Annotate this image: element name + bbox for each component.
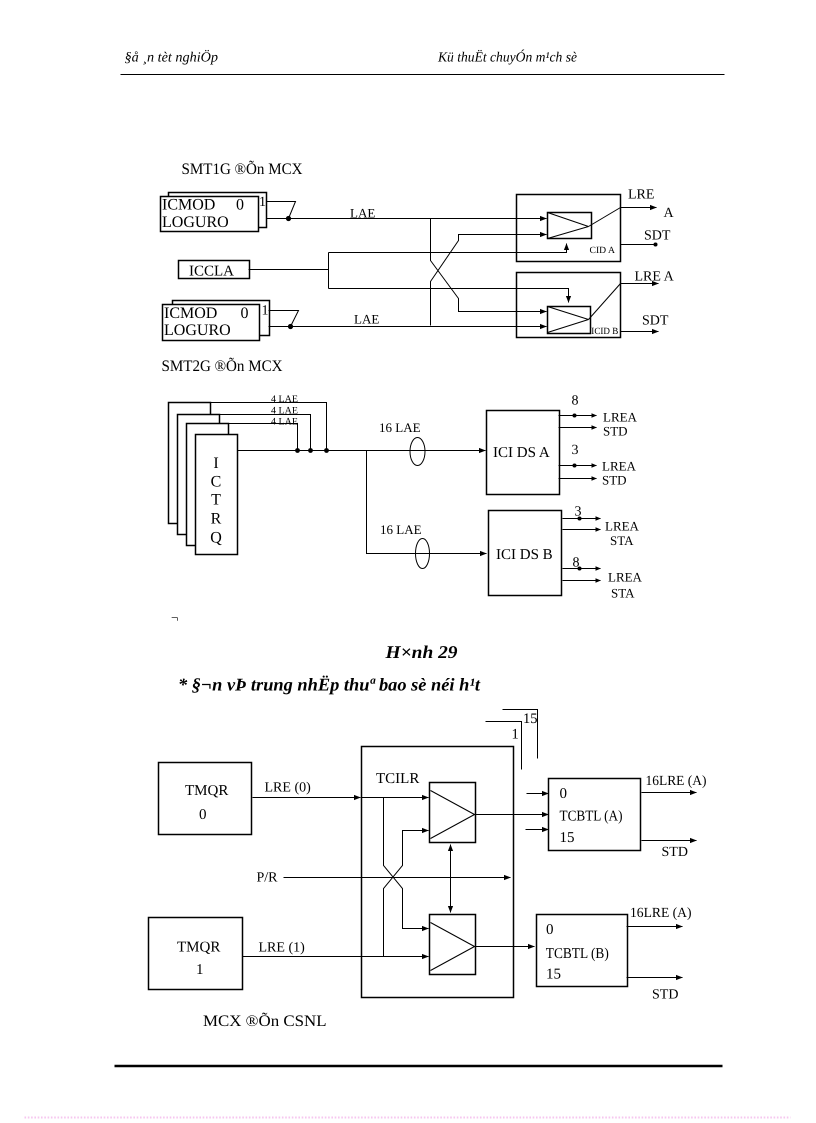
dot A3 bbox=[573, 464, 577, 468]
wire cross branch from bottom LAE to CID A bbox=[431, 235, 547, 326]
dot SDT output A bbox=[654, 243, 658, 247]
block ICTRQ stack 3 bbox=[187, 424, 229, 546]
junction dot 3 bbox=[324, 448, 329, 453]
mux top TCILR bbox=[430, 783, 476, 843]
wire 4LAE line 3 bbox=[187, 424, 298, 451]
block ICID B bbox=[517, 273, 621, 338]
wire 16LRE A out bbox=[642, 792, 697, 794]
wire STD B out bbox=[627, 977, 683, 979]
wire branch to ICI DS B bbox=[367, 451, 487, 554]
wire 16LRE B out bbox=[627, 926, 683, 928]
wire LAE top bus bbox=[267, 218, 547, 220]
block ICI DS B bbox=[489, 511, 562, 596]
block CID A bbox=[517, 195, 621, 262]
wire SDT output B bbox=[621, 331, 659, 333]
block ICMOD LOGURO 1 (back) bbox=[169, 193, 267, 228]
bracket 15 bbox=[503, 710, 538, 759]
ellipse bus marker top bbox=[410, 438, 425, 466]
wire LREA out B3 bbox=[563, 568, 601, 570]
wire STA out B2 bbox=[563, 529, 601, 531]
dot B3 bbox=[578, 567, 582, 571]
wire LAE bottom bus bbox=[269, 326, 547, 328]
wire STD out A4 bbox=[559, 478, 597, 480]
wire STA out B4 bbox=[563, 580, 601, 582]
dot B1 bbox=[578, 517, 582, 521]
junction dot lower LAE bbox=[288, 324, 293, 329]
mux symbol ICID B bbox=[548, 307, 591, 334]
tap wire from box 1 to LAE bus bbox=[267, 202, 296, 219]
block ICTRQ front bbox=[196, 435, 238, 555]
wire cross up branch bbox=[384, 831, 429, 957]
wire STD out A2 bbox=[559, 427, 597, 429]
dot A1 bbox=[573, 414, 577, 418]
block ICTRQ stack 2 bbox=[178, 415, 220, 535]
wire cross down branch bbox=[384, 798, 429, 929]
block ICMOD LOGURO 1 lower (back) bbox=[173, 301, 270, 336]
block ICMOD LOGURO 0 lower (front) bbox=[163, 305, 260, 341]
wire double arrow between muxes bbox=[450, 845, 452, 913]
block TMQR 1 bbox=[149, 918, 243, 990]
bracket 1 bbox=[486, 722, 522, 770]
wire mux top output bbox=[475, 814, 549, 816]
wire LREA out A1 bbox=[559, 415, 597, 417]
wire STD A out bbox=[642, 840, 697, 842]
wire mux output diagonal ICID B bbox=[589, 284, 621, 320]
junction dot 2 bbox=[308, 448, 313, 453]
wire SDT output A bbox=[621, 244, 655, 246]
mux symbol CID A bbox=[548, 213, 592, 239]
block ICMOD LOGURO 0 (front) bbox=[161, 197, 259, 232]
wire LRE0 bbox=[253, 797, 361, 799]
block ICCLA bbox=[179, 261, 250, 279]
block TCILR bbox=[362, 747, 514, 998]
block ICTRQ stack back 1 bbox=[169, 403, 211, 524]
junction dot on LAE bus bbox=[286, 216, 291, 221]
ellipse bus marker bottom bbox=[416, 539, 430, 569]
wire control split vertical bbox=[328, 253, 330, 289]
page break dotted line bbox=[25, 1117, 791, 1119]
wire LRE output A bbox=[621, 207, 657, 209]
wire P/R bbox=[284, 877, 511, 879]
wire LRE A output B bbox=[621, 283, 659, 285]
wire cross branch from top LAE to ICID B bbox=[431, 219, 547, 312]
wire arrow into TCBTL A upper bbox=[527, 793, 549, 795]
header rule bbox=[121, 74, 725, 76]
wire mux bottom output bbox=[475, 946, 535, 948]
wire 4LAE line 1 bbox=[169, 403, 327, 451]
wire LRE0 inside TCILR bbox=[362, 797, 429, 799]
block ICI DS A bbox=[487, 411, 560, 495]
wire arrow into TCBTL A lower bbox=[526, 829, 549, 831]
wire control B bbox=[329, 289, 569, 303]
wire control A bbox=[329, 244, 567, 253]
wire ICCLA output bbox=[249, 269, 329, 271]
wire LRE1 bbox=[243, 956, 429, 958]
wire mux output diagonal CID A bbox=[589, 208, 621, 227]
block TMQR 0 bbox=[159, 763, 252, 835]
wire main bus to ICI DS A bbox=[238, 450, 486, 452]
junction dot 1 bbox=[295, 448, 300, 453]
block TCBTL (B) bbox=[537, 915, 628, 987]
wire LREA out B1 bbox=[563, 518, 601, 520]
bottom rule bbox=[115, 1065, 723, 1067]
tap wire from lower box to LAE bus bbox=[269, 311, 299, 327]
wire 4LAE line 2 bbox=[178, 415, 311, 451]
mux bottom TCILR bbox=[430, 915, 476, 975]
wire LREA out A3 bbox=[559, 465, 597, 467]
block TCBTL (A) bbox=[549, 779, 641, 851]
